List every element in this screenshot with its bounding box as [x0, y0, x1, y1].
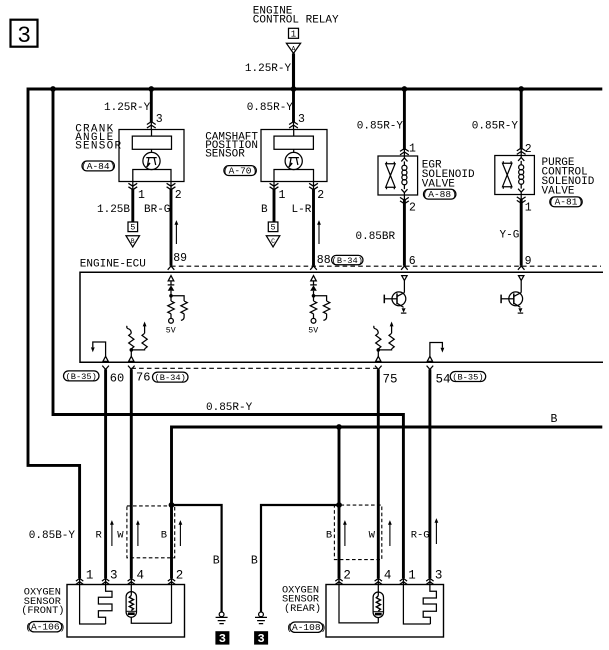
svg-text:B: B: [261, 204, 268, 216]
wire crank pin1: [132, 182, 134, 190]
svg-text:B: B: [326, 530, 332, 542]
wire purge to ECU 9: [520, 195, 522, 200]
svg-text:(REAR): (REAR): [284, 603, 321, 615]
main bus wire: [28, 87, 602, 90]
arrow up front pin4: [136, 520, 140, 546]
wire ECU75 to rear O2 pin4: [377, 369, 380, 578]
ECU transistor pin 6: [384, 276, 407, 314]
label (A-108): [286, 622, 326, 633]
arrow up cam pin2: [317, 220, 321, 244]
wire ECU54 to rear O2 pin3: [428, 369, 431, 578]
svg-text:3: 3: [257, 632, 264, 646]
svg-text:3: 3: [219, 632, 226, 646]
svg-text:(B-34): (B-34): [332, 256, 363, 266]
ground symbol 2: [255, 612, 267, 624]
node bus-junction crank: [148, 86, 154, 92]
ground symbol 1: [216, 612, 228, 624]
arrow up rear pin2: [343, 520, 347, 546]
node bus-junction purge: [518, 86, 524, 92]
fork terminal ECU 88: [310, 266, 317, 270]
svg-text:1.25R-Y: 1.25R-Y: [245, 63, 292, 75]
svg-text:W: W: [117, 530, 124, 542]
connector chevrons purge bottom: [517, 197, 526, 203]
svg-text:(A-88): (A-88): [423, 189, 457, 200]
svg-text:B: B: [213, 555, 220, 568]
svg-text:B: B: [251, 555, 258, 568]
svg-text:4: 4: [384, 568, 392, 582]
svg-text:5V: 5V: [308, 327, 318, 336]
svg-text:(A-108): (A-108): [286, 622, 326, 633]
svg-text:L-R: L-R: [292, 204, 312, 216]
svg-text:5V: 5V: [166, 327, 176, 336]
ECU connector dashed line B-34 top: [171, 265, 601, 267]
connector triangle A: [286, 43, 300, 53]
svg-text:1: 1: [409, 143, 416, 156]
svg-text:0.85R-Y: 0.85R-Y: [357, 120, 404, 132]
connector chevrons cam pin1: [270, 183, 279, 189]
connector chevrons cam pin2: [309, 183, 318, 189]
fork terminal ECU 89: [168, 266, 175, 270]
svg-text:1: 1: [86, 568, 94, 582]
arrow up rear pin3: [435, 518, 439, 544]
ground triangle C cam: [266, 236, 280, 247]
label (B-34) bottom: [153, 372, 189, 383]
oxygen sensor front A-106: [21, 585, 184, 638]
svg-text:3: 3: [17, 23, 31, 49]
svg-text:2: 2: [343, 568, 351, 582]
svg-text:0.85R-Y: 0.85R-Y: [206, 402, 253, 414]
relay connector box 1: [289, 28, 299, 39]
purge control solenoid valve A-81: [495, 156, 535, 195]
fork terminal ECU 75: [375, 366, 382, 370]
ECU input circuit pin 88: [310, 276, 330, 324]
svg-text:ENGINE-ECU: ENGINE-ECU: [80, 258, 146, 270]
connector chevrons EGR top: [400, 149, 409, 155]
wire ground branch 1: [172, 505, 222, 612]
svg-text:3: 3: [156, 113, 163, 126]
node bus-junction relay/cam: [291, 86, 297, 92]
svg-text:(FRONT): (FRONT): [21, 605, 64, 617]
connector chevrons crank pin2: [167, 183, 176, 189]
node rear pin2 ground branch: [336, 502, 342, 508]
svg-text:3: 3: [435, 568, 443, 582]
wire ECU76 to front O2 pin4: [130, 369, 133, 578]
svg-text:76: 76: [136, 371, 150, 385]
svg-text:0.85B-Y: 0.85B-Y: [29, 530, 76, 542]
fork terminal ECU 54: [427, 366, 434, 370]
shield dashed box rear: [334, 505, 381, 559]
connector chevrons purge top: [517, 148, 526, 154]
svg-text:SENSOR: SENSOR: [205, 149, 245, 161]
wire EGR to ECU 6: [403, 195, 405, 200]
ECU resistor pair pin 75: [374, 322, 394, 362]
svg-text:(A-70): (A-70): [223, 165, 257, 176]
svg-text:1: 1: [138, 189, 145, 202]
svg-text:2: 2: [317, 189, 324, 202]
label (A-70): [223, 165, 257, 176]
svg-text:1: 1: [525, 202, 532, 215]
svg-text:Y-G: Y-G: [500, 230, 520, 242]
svg-text:(A-106): (A-106): [25, 621, 65, 632]
svg-text:3: 3: [298, 113, 305, 126]
node B-line junction: [336, 424, 342, 430]
svg-text:0.85R-Y: 0.85R-Y: [472, 120, 519, 132]
svg-text:54: 54: [436, 373, 451, 387]
label (A-106): [25, 621, 65, 632]
svg-text:B: B: [131, 238, 135, 245]
fork terminal ECU 76: [128, 366, 135, 370]
svg-text:(A-84): (A-84): [81, 161, 115, 172]
arrow up rear pin4: [388, 520, 392, 546]
svg-text:(A-81): (A-81): [549, 197, 583, 208]
ECU bottom dashed line: [131, 367, 378, 369]
svg-text:4: 4: [137, 568, 145, 582]
ENGINE CONTROL RELAY label: [253, 6, 339, 27]
arrow up front pin2: [179, 520, 183, 546]
wire ground branch 2: [261, 505, 339, 612]
joint box 5 crank: [128, 222, 138, 233]
label (B-35) left: [64, 371, 100, 382]
svg-text:0.85R-Y: 0.85R-Y: [247, 102, 294, 114]
svg-text:R: R: [96, 530, 103, 542]
svg-text:5: 5: [130, 223, 135, 233]
wire B from front O2 pin2: [172, 427, 603, 578]
ECU resistor pair pin 76: [127, 322, 147, 362]
svg-text:2: 2: [176, 568, 184, 582]
svg-text:(B-35): (B-35): [66, 372, 97, 382]
camshaft position sensor A-70: [205, 130, 327, 182]
wire purge drop: [520, 89, 523, 150]
svg-text:1: 1: [408, 568, 416, 582]
svg-text:1.25B: 1.25B: [97, 204, 130, 216]
joint box 5 cam: [268, 222, 278, 233]
svg-text:89: 89: [173, 252, 187, 265]
oxygen sensor rear A-108: [282, 584, 444, 637]
svg-text:SENSOR: SENSOR: [75, 141, 122, 153]
svg-text:3: 3: [110, 568, 118, 582]
ground ref box 3 right: [254, 631, 268, 646]
label (A-81): [549, 197, 583, 208]
arrow up front pin3: [110, 520, 114, 546]
svg-text:A: A: [292, 46, 296, 53]
crank angle sensor A-84: [75, 124, 184, 182]
wire ECU60 to front O2 pin3: [104, 369, 107, 578]
EGR solenoid valve A-88: [378, 156, 418, 195]
ECU pin 60 internal wire: [91, 342, 108, 361]
fork terminal ECU 9: [518, 266, 525, 270]
wire EGR drop: [403, 89, 406, 150]
wire branch to rear O2 pin2: [338, 427, 341, 578]
page number box 3: [11, 20, 38, 49]
svg-text:1.25R-Y: 1.25R-Y: [104, 102, 151, 114]
label (B-35) right: [450, 372, 486, 383]
fork terminal ECU 60: [102, 366, 109, 370]
svg-text:CONTROL RELAY: CONTROL RELAY: [253, 15, 339, 27]
svg-text:2: 2: [525, 143, 532, 156]
fork terminal ECU 6: [401, 266, 408, 270]
wire 0.85R-Y run to rear O2 pin1: [53, 89, 403, 578]
label (A-88): [423, 189, 457, 200]
wire cam sensor drop: [292, 89, 295, 122]
svg-text:1: 1: [291, 29, 296, 39]
svg-text:W: W: [369, 530, 376, 542]
svg-text:60: 60: [110, 372, 124, 386]
svg-text:0.85BR: 0.85BR: [356, 231, 396, 243]
svg-text:B: B: [551, 413, 558, 426]
label (A-84): [81, 161, 115, 172]
svg-text:2: 2: [175, 189, 182, 202]
arrow up crank pin2: [175, 220, 179, 244]
svg-text:R-G: R-G: [411, 530, 430, 542]
connector chevrons crank pin1: [128, 183, 137, 189]
node bus-junction x53: [50, 86, 56, 92]
wire crank sensor drop: [150, 89, 153, 122]
svg-text:88: 88: [317, 254, 331, 267]
wire cam pin1: [273, 182, 275, 190]
node bus-junction EGR: [402, 86, 408, 92]
wire crank pin2 to ECU 89: [170, 182, 172, 190]
svg-text:(B-34): (B-34): [155, 373, 186, 383]
ECU transistor pin 9: [501, 276, 524, 314]
svg-text:C: C: [271, 238, 275, 245]
ground ref box 3 left: [215, 631, 229, 646]
ECU input circuit pin 89: [168, 276, 188, 324]
label (B-34) top: [332, 255, 363, 265]
shield dashed box front: [127, 506, 175, 558]
connector chevrons front O2 pins: [76, 578, 175, 584]
wire cam pin2 to ECU 88: [313, 182, 315, 190]
connector chevrons crank top: [147, 122, 156, 128]
svg-text:75: 75: [383, 372, 398, 386]
ECU box: [80, 272, 603, 362]
ECU pin 54 internal wire: [427, 343, 444, 362]
connector chevrons rear O2 pins: [335, 578, 433, 584]
svg-text:1: 1: [279, 189, 286, 202]
node front pin2 ground branch: [169, 502, 175, 508]
svg-text:B: B: [161, 530, 167, 542]
wire relay drop 1.25R-Y: [292, 53, 295, 90]
svg-text:BR-G: BR-G: [144, 204, 170, 216]
wire left drop to front O2 pin1: [28, 88, 80, 579]
ground triangle B crank: [126, 236, 140, 247]
connector chevrons EGR bottom: [400, 197, 409, 203]
connector chevrons cam top: [289, 122, 298, 128]
svg-text:5: 5: [271, 223, 276, 233]
svg-text:2: 2: [409, 201, 416, 214]
svg-text:(B-35): (B-35): [452, 373, 483, 383]
